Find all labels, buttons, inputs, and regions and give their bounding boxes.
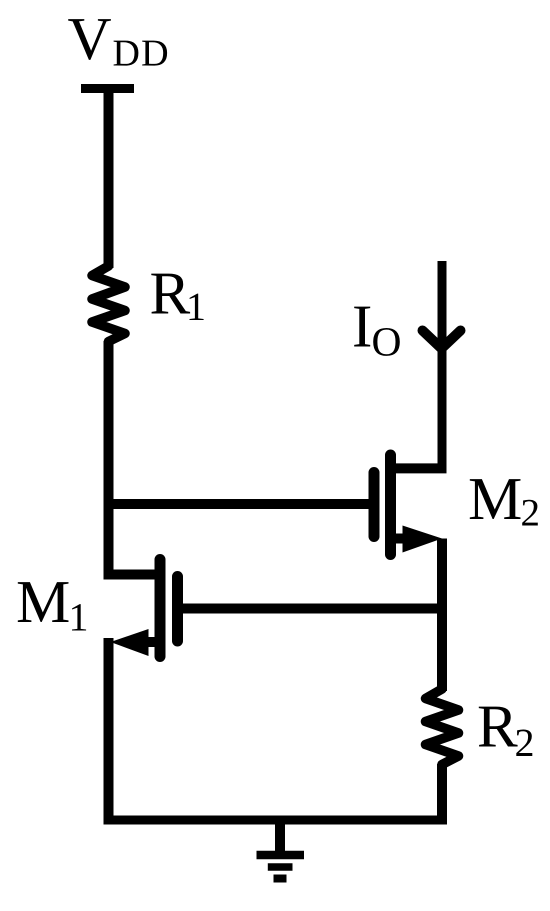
- label R2: [479, 707, 533, 756]
- wire M1 source stub: [146, 637, 160, 647]
- wire IO feed (right rail top): [438, 261, 447, 468]
- wire node: left rail to M2 gate: [104, 499, 375, 509]
- label R1: [151, 274, 203, 320]
- current arrow IO: [423, 331, 461, 349]
- wire M1 source down to ground rail: [104, 638, 114, 820]
- wire M1 drain stub: [104, 570, 161, 580]
- wire R2 bottom to ground rail: [437, 764, 447, 820]
- wire ground rail (bottom): [104, 816, 448, 825]
- resistor R1: [92, 266, 125, 342]
- wire R1 bottom to M1 drain (left rail): [104, 341, 114, 579]
- transistor M2 channel bar: [385, 455, 396, 555]
- transistor M2 gate bar: [369, 473, 380, 537]
- ground symbol: [257, 820, 305, 879]
- wire M1 gate to right rail: [178, 604, 443, 614]
- wire M2 source stub: [391, 534, 405, 544]
- label V_DD: [68, 19, 167, 66]
- resistor R2: [426, 689, 459, 765]
- wire M2 drain stub: [391, 463, 447, 473]
- label M2: [470, 479, 538, 525]
- label I_O: [354, 307, 400, 356]
- wire VDD bar to R1 top: [104, 89, 114, 269]
- transistor M1 source arrow: [111, 629, 149, 656]
- label M1: [18, 582, 86, 630]
- transistor M1 gate bar: [172, 577, 183, 642]
- wire M2 source to R2 top (right rail): [437, 539, 447, 692]
- power VDD rail bar: [81, 84, 134, 93]
- transistor M1 channel bar: [155, 560, 166, 657]
- transistor M2 source arrow: [403, 526, 443, 553]
